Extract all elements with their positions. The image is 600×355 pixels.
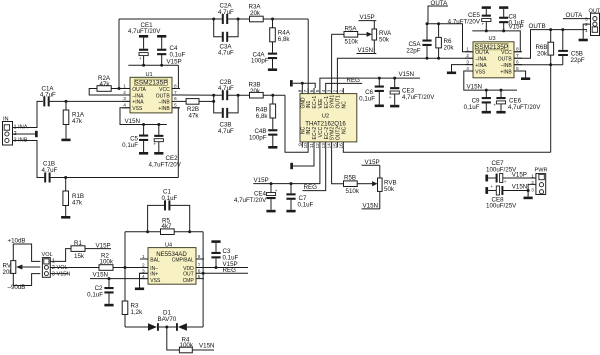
svg-text:+: + (139, 56, 142, 61)
svg-text:15: 15 (333, 143, 339, 149)
wire OUT/REG from U4 pin6 (204, 272, 248, 274)
svg-text:50k: 50k (384, 186, 395, 193)
svg-text:OUTA: OUTA (566, 12, 584, 19)
wire SYM1 riser to R5A (331, 34, 333, 88)
svg-text:+: + (491, 184, 494, 189)
svg-text:8: 8 (174, 83, 177, 89)
wire R3B to U2 IN2 (285, 95, 308, 152)
svg-text:V15P: V15P (167, 59, 182, 66)
svg-text:CMP/BAL: CMP/BAL (172, 257, 194, 263)
svg-text:+: + (389, 95, 392, 100)
svg-text:1: 1 (338, 89, 344, 92)
svg-text:4,7uF: 4,7uF (218, 128, 234, 135)
svg-text:4: 4 (321, 89, 327, 92)
svg-text:4,7uF: 4,7uF (218, 50, 234, 57)
svg-text:0,1uF: 0,1uF (298, 201, 314, 208)
resistor R4 (179, 337, 214, 353)
svg-text:11: 11 (309, 143, 315, 148)
op-amp U3 SSM2135P (465, 36, 522, 78)
ground below CE4 (266, 210, 275, 213)
resistor R2A feedback (89, 75, 130, 95)
svg-text:+INB: +INB (500, 69, 512, 75)
svg-text:V15P: V15P (360, 14, 375, 21)
ground above C8 (499, 6, 508, 9)
svg-text:3: 3 (531, 187, 534, 193)
svg-text:2 VOL: 2 VOL (52, 265, 68, 271)
wire -INB from U3 pin6 (514, 64, 563, 66)
ground at U3 +INA (447, 65, 473, 75)
svg-text:U2: U2 (322, 114, 329, 120)
resistor R2 (99, 252, 148, 270)
net V15N below RVA (357, 47, 377, 54)
svg-text:+: + (504, 179, 507, 184)
svg-text:BAL: BAL (150, 257, 160, 263)
capacitor C2B (218, 79, 250, 100)
svg-text:22pF: 22pF (571, 57, 585, 64)
svg-text:+10dB: +10dB (8, 237, 26, 244)
node C2A right (237, 18, 240, 21)
net OUTA label top (428, 0, 448, 24)
ground below R1B (61, 216, 70, 219)
svg-text:V15P: V15P (365, 159, 380, 166)
svg-text:1: 1 (531, 173, 534, 179)
svg-text:6: 6 (174, 96, 177, 102)
svg-text:510k: 510k (345, 39, 359, 46)
svg-text:0,1uF: 0,1uF (464, 104, 480, 111)
svg-text:4,7uFT/20V: 4,7uFT/20V (149, 161, 182, 168)
svg-text:2: 2 (585, 22, 588, 28)
svg-text:V15N: V15N (358, 47, 373, 54)
ground above C3 (211, 240, 220, 243)
capacitor CE6 electrolytic (493, 90, 541, 111)
svg-text:NC: NC (341, 101, 347, 109)
svg-text:SSM2135P: SSM2135P (134, 80, 168, 87)
ground below C7 (286, 210, 295, 213)
svg-text:4,7uF: 4,7uF (218, 85, 234, 92)
svg-text:4,7uFT/20V: 4,7uFT/20V (234, 197, 267, 204)
resistor R5 (161, 217, 204, 234)
svg-text:VSS: VSS (132, 106, 143, 112)
net REG at U2 EC-2 (303, 148, 326, 192)
capacitor C5A (406, 24, 431, 58)
wire VOL pin3 stub (50, 273, 68, 275)
svg-text:V15N: V15N (125, 118, 140, 125)
ground below C2 (104, 304, 113, 307)
capacitor C4A (251, 52, 277, 69)
wire D1 node down to R4 (167, 327, 180, 350)
svg-text:15k: 15k (74, 253, 85, 260)
V15P rail above U1 (128, 59, 181, 89)
svg-text:VSS: VSS (475, 69, 486, 75)
resistor R3B (249, 82, 286, 98)
feedback line R5 row (125, 231, 161, 233)
op-amp U4 NE5534AD (140, 242, 204, 284)
VCA U2 THAT2162Q16 (297, 88, 356, 149)
svg-text:V15N: V15N (93, 272, 108, 279)
wire +INB riser to U1 pin5 (172, 108, 178, 178)
svg-text:+INA: +INA (132, 100, 144, 106)
svg-text:OUTB: OUTB (529, 23, 546, 30)
ground at IN pin2 (13, 131, 38, 137)
wire VEE to V15N row (320, 78, 420, 88)
capacitor C4 (157, 38, 185, 66)
net V15N rail at U4 (90, 272, 148, 279)
resistor R6 (436, 24, 455, 58)
svg-text:V15N: V15N (512, 184, 527, 191)
svg-text:8: 8 (198, 254, 201, 260)
ground below C5 (139, 152, 148, 155)
svg-text:REG: REG (304, 184, 318, 191)
op-amp U1 SSM2135P (122, 72, 180, 113)
svg-text:3: 3 (142, 268, 145, 274)
wire SYM2 riser to R5B (332, 148, 344, 184)
svg-text:V15P: V15P (254, 177, 269, 184)
svg-text:6,8k: 6,8k (256, 113, 269, 120)
svg-text:–INB: –INB (159, 100, 171, 106)
svg-text:1: 1 (585, 28, 588, 34)
resistor R1B (63, 178, 84, 217)
ground at U3 +INB (514, 71, 530, 80)
wire IN- node riser up to feedback (124, 232, 126, 268)
ground below CE2 (154, 152, 163, 155)
svg-text:4,7uFT/20V: 4,7uFT/20V (448, 18, 481, 25)
svg-text:V15P: V15P (512, 171, 527, 178)
capacitor C3A parallel loop (214, 19, 238, 57)
svg-text:3 V15N: 3 V15N (52, 271, 71, 277)
svg-text:7: 7 (174, 90, 177, 96)
wire INA from connector pin1 up to C1A (13, 101, 44, 127)
wire VOL pin2 to R2 (50, 267, 99, 269)
svg-text:100pF: 100pF (251, 58, 269, 65)
ground at U4 IN+ (135, 273, 148, 290)
wire OUTA node to U3 pin1 (427, 24, 473, 52)
capacitor C2 (87, 279, 113, 304)
capacitor C5 (122, 125, 148, 153)
svg-text:–INA: –INA (475, 57, 487, 63)
ground below C6 (375, 105, 384, 108)
svg-text:BAV70: BAV70 (158, 316, 177, 323)
node R4A top (271, 18, 274, 21)
svg-text:5: 5 (174, 103, 177, 109)
resistor R5A (332, 25, 367, 45)
svg-text:4: 4 (142, 274, 145, 280)
svg-text:OUTB: OUTB (498, 57, 513, 63)
node +INA junction (65, 100, 68, 103)
wire OUTB from U1 pin7 (180, 94, 222, 96)
svg-text:1,2k: 1,2k (131, 309, 144, 316)
capacitor C1B (42, 161, 179, 183)
capacitor CE1 electrolytic (128, 22, 161, 66)
wire VOL pin1 to R1 (50, 249, 71, 262)
capacitor C2A (218, 3, 250, 24)
svg-text:4,7uFT/20V: 4,7uFT/20V (128, 28, 161, 35)
svg-text:7: 7 (303, 89, 309, 92)
svg-text:510k: 510k (346, 188, 360, 195)
capacitor C5B (558, 30, 585, 65)
net V15P at R1 (94, 242, 111, 249)
capacitor CE3 electrolytic (389, 78, 435, 105)
wire U3 VCC riser to V15P rail (472, 31, 520, 52)
svg-text:5: 5 (315, 89, 321, 92)
wire VCC riser to V15P rail (253, 148, 320, 184)
svg-text:V15N: V15N (199, 342, 214, 349)
diode D1 BAV70 dual (125, 310, 203, 331)
resistor R3A (249, 4, 309, 22)
net V15N below RVB (362, 203, 380, 210)
resistor R4A (270, 19, 291, 53)
svg-text:+INB: +INB (158, 106, 170, 112)
ground below CE3 (390, 105, 399, 108)
connector PWR (531, 168, 547, 195)
svg-text:2: 2 (466, 53, 469, 59)
ground below C9 (482, 111, 491, 114)
svg-text:+INA: +INA (475, 63, 487, 69)
potentiometer RVB 50k (372, 165, 397, 209)
svg-text:–INB: –INB (501, 63, 513, 69)
svg-text:8: 8 (297, 89, 303, 92)
svg-text:IN+: IN+ (150, 272, 158, 278)
net REG at U2 EC-1 (326, 77, 363, 88)
svg-text:3: 3 (585, 17, 588, 23)
svg-text:OUTA: OUTA (475, 50, 489, 56)
svg-text:PWR: PWR (535, 168, 548, 174)
capacitor CE2 electrolytic (149, 125, 182, 169)
resistor R1A (63, 101, 85, 138)
wire IN1 riser down to U2 (307, 19, 309, 94)
V15N rail below U1 (120, 108, 167, 125)
ground below CE6 (496, 111, 505, 114)
ground below R1A (61, 139, 70, 142)
node +INB junction (64, 176, 67, 179)
svg-text:THAT2162Q16: THAT2162Q16 (305, 121, 346, 128)
svg-text:4,7uF: 4,7uF (218, 9, 234, 16)
svg-text:100pF: 100pF (249, 134, 267, 141)
ground below C4B (268, 146, 277, 149)
capacitor C7 (286, 184, 313, 210)
svg-text:1: 1 (466, 47, 469, 53)
svg-text:OUT: OUT (183, 272, 194, 278)
resistor R6B (535, 30, 553, 65)
svg-text:2: 2 (531, 180, 534, 186)
resistor R3 (122, 268, 143, 328)
ground at U2 EC+2 (290, 148, 314, 170)
node OUTB junctions (212, 94, 215, 97)
capacitor C6 (359, 78, 384, 104)
svg-text:V15N: V15N (399, 71, 414, 78)
svg-text:0,1uF: 0,1uF (170, 51, 186, 58)
wire OUT node riser down to D1 (202, 273, 204, 327)
svg-text:7: 7 (198, 263, 201, 269)
svg-text:–INA: –INA (132, 93, 144, 99)
wire top line A to C2A (119, 18, 222, 20)
capacitor CE5 electrolytic (448, 9, 491, 31)
net OUTA to OUT connector (563, 12, 591, 19)
node IN- junction (124, 266, 127, 269)
wire V15N up to PWR pin2 (528, 184, 536, 190)
svg-text:0,1uF: 0,1uF (87, 291, 103, 298)
svg-text:20k: 20k (537, 50, 548, 57)
svg-text:10: 10 (303, 143, 309, 149)
capacitor C9 (464, 90, 491, 111)
svg-text:V15N: V15N (467, 83, 482, 90)
wire INB from connector pin3 down (13, 141, 45, 178)
capacitor C4B (249, 128, 277, 146)
svg-text:CMP: CMP (183, 278, 195, 284)
svg-text:VCC: VCC (501, 50, 512, 56)
svg-text:2: 2 (123, 90, 126, 96)
resistor R4B (255, 95, 275, 129)
resistor R1 (71, 240, 94, 260)
svg-text:50k: 50k (379, 36, 390, 43)
svg-text:+: + (154, 142, 157, 147)
wire OUTA riser to top feedback line (118, 19, 120, 89)
resistor R2B (180, 99, 214, 120)
svg-text:3: 3 (327, 89, 333, 92)
ground above C4 (157, 35, 166, 38)
svg-text:0,1uF: 0,1uF (122, 142, 138, 149)
connector VOL (42, 252, 71, 277)
capacitor C3B parallel loop (214, 95, 238, 135)
potentiometer RVA 50k (367, 21, 392, 54)
svg-text:20k: 20k (444, 45, 455, 52)
node C2A left (212, 18, 215, 21)
svg-text:47k: 47k (189, 113, 200, 120)
resistor R5B (344, 175, 373, 195)
svg-text:2: 2 (142, 263, 145, 269)
svg-text:REG: REG (223, 267, 237, 274)
ground at U2 GND / EC+1 (290, 80, 315, 88)
wire OUT1 riser and line to U3 -INA (337, 58, 473, 88)
svg-text:22pF: 22pF (406, 47, 420, 54)
svg-text:+: + (482, 22, 485, 27)
capacitor CE8 electrolytic (485, 184, 528, 210)
ground below PWR (524, 191, 533, 200)
svg-text:6: 6 (198, 268, 201, 274)
svg-text:1: 1 (123, 83, 126, 89)
svg-text:100uF/25V: 100uF/25V (486, 203, 517, 210)
connector OUT (585, 8, 600, 35)
ground below C4A (268, 68, 277, 71)
potentiometer RV 20k (3, 237, 41, 291)
wire OUT2 riser to bottom line (343, 148, 550, 153)
capacitor C3 (211, 243, 238, 268)
svg-text:0,1uF: 0,1uF (509, 19, 525, 26)
capacitor CE7 electrolytic (485, 160, 536, 184)
svg-text:47k: 47k (72, 118, 83, 125)
svg-text:6,8k: 6,8k (278, 36, 291, 43)
ground above CE1 (139, 35, 148, 38)
svg-text:47k: 47k (72, 199, 83, 206)
svg-text:4,7uFT/20V: 4,7uFT/20V (508, 104, 541, 111)
connector IN (3, 117, 28, 146)
svg-text:+: + (275, 188, 278, 193)
svg-text:OUTA: OUTA (132, 87, 146, 93)
svg-text:VSS: VSS (150, 278, 161, 284)
V15N rail below U3 (464, 71, 517, 90)
svg-text:9: 9 (297, 143, 303, 146)
capacitor C8 (499, 9, 524, 31)
node D1 center (165, 326, 168, 329)
svg-text:VCC: VCC (159, 87, 170, 93)
svg-text:0,1uF: 0,1uF (359, 96, 375, 103)
wire -INB feedback riser down to bottom line (550, 65, 552, 153)
wire OUTB riser from U3 pin7 (514, 30, 587, 59)
svg-text:NC: NC (341, 126, 347, 134)
capacitor C1 feedback (148, 189, 190, 232)
svg-text:3: 3 (123, 96, 126, 102)
ground above CE5 (482, 6, 491, 9)
svg-text:0,1uF: 0,1uF (223, 254, 239, 261)
svg-text:2: 2 (333, 89, 339, 92)
svg-text:5: 5 (198, 274, 201, 280)
wire feedback right riser to OUT node (202, 232, 204, 274)
ground at OUT pin2 (579, 24, 591, 41)
node R4B top (271, 94, 274, 97)
svg-text:OUTB: OUTB (156, 93, 171, 99)
net V15P above RVB (362, 159, 380, 166)
svg-text:6: 6 (309, 89, 315, 92)
svg-text:1: 1 (142, 254, 145, 260)
net V15P above RVA (359, 14, 377, 21)
node OUTA junction at U1 pin1 (118, 87, 121, 90)
svg-text:4,7uFT/20V: 4,7uFT/20V (402, 94, 435, 101)
wire VDD from U4 pin7 (204, 267, 248, 269)
capacitor C1A (40, 86, 130, 107)
capacitor CE4 electrolytic (234, 184, 278, 210)
svg-text:+: + (493, 103, 496, 108)
